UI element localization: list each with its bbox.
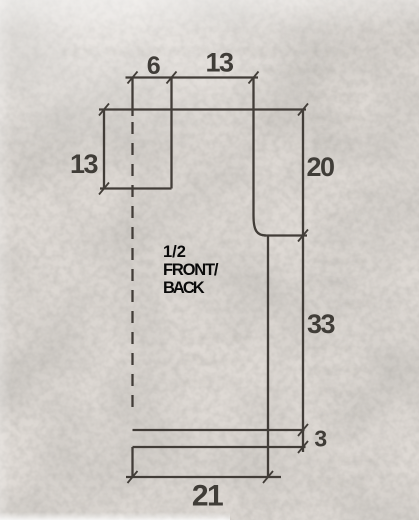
- svg-text:21: 21: [192, 480, 223, 513]
- svg-text:6: 6: [147, 52, 160, 80]
- svg-text:13: 13: [205, 48, 234, 78]
- svg-text:3: 3: [314, 426, 326, 452]
- svg-text:13: 13: [70, 149, 99, 179]
- svg-text:20: 20: [306, 152, 334, 182]
- svg-text:33: 33: [307, 309, 336, 339]
